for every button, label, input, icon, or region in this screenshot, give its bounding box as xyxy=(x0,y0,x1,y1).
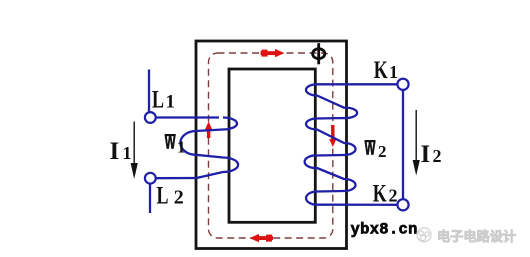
terminal L2 xyxy=(145,173,156,184)
wire: K1 to winding W2 xyxy=(317,83,397,85)
terminal K2 xyxy=(397,199,408,210)
transformer core window (inner outline) xyxy=(229,69,315,222)
wire: L2 lead (vertical) xyxy=(149,184,151,213)
svg-text:L: L xyxy=(152,86,164,113)
winding W1 (primary coil) xyxy=(180,118,238,179)
label W2 xyxy=(365,138,387,161)
svg-text:2: 2 xyxy=(433,146,442,166)
svg-text:2: 2 xyxy=(174,187,184,209)
transformer core outer outline xyxy=(196,41,347,249)
flux arrow top (right-pointing) xyxy=(261,49,285,57)
flux path (dashed) xyxy=(209,53,333,238)
current arrow I2 xyxy=(413,110,420,176)
flux symbol PHI xyxy=(313,43,325,64)
svg-text:I: I xyxy=(110,138,120,165)
wire: winding W1 to L2 xyxy=(156,177,197,179)
svg-text:2: 2 xyxy=(378,142,387,161)
svg-text:1: 1 xyxy=(166,91,176,112)
svg-text:W: W xyxy=(365,138,376,159)
terminal L1 xyxy=(145,112,156,123)
flux arrow right leg (down-pointing) xyxy=(329,125,336,147)
svg-text:2: 2 xyxy=(389,186,398,206)
svg-text:电子电路设计: 电子电路设计 xyxy=(437,228,516,244)
flux arrow bottom (left-pointing) xyxy=(250,234,274,242)
wire: L1 lead (vertical) xyxy=(148,70,150,113)
svg-text:L: L xyxy=(157,183,169,210)
wire: L1 to winding W1 xyxy=(156,116,219,118)
flux arrow left leg (up-pointing) xyxy=(205,122,212,139)
svg-text:W: W xyxy=(165,132,176,153)
winding W2 (secondary coil) xyxy=(305,84,398,205)
svg-text:1: 1 xyxy=(123,143,132,163)
svg-text:K: K xyxy=(374,57,388,84)
svg-text:1: 1 xyxy=(177,138,186,157)
label W1 xyxy=(165,132,186,156)
wire: K1 to K2 (vertical) xyxy=(402,90,404,199)
svg-text:K: K xyxy=(373,181,387,208)
svg-text:1: 1 xyxy=(389,62,398,82)
watermark stamp icon xyxy=(417,228,431,242)
svg-text:ybx8.cn: ybx8.cn xyxy=(351,220,418,238)
current arrow I1 xyxy=(131,122,138,180)
terminal K1 xyxy=(397,79,408,90)
svg-text:I: I xyxy=(421,141,431,168)
